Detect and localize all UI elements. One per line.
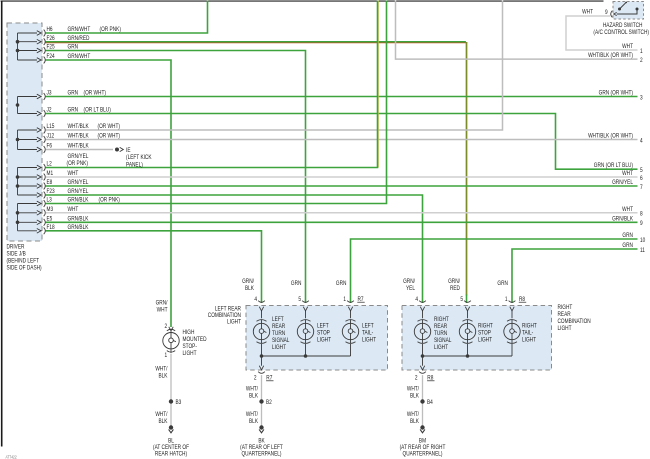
svg-text:GRN/: GRN/ [156, 300, 168, 307]
J/B internal wire bus 3 (L15,J12,F6) [18, 130, 38, 150]
svg-text:5: 5 [640, 168, 643, 175]
ground BK [259, 425, 263, 429]
svg-text:WHT: WHT [68, 207, 79, 214]
J/B pin F26: arrow and connector arc [37, 39, 41, 44]
J/B internal wire bus 5 (L3,M3,E5,F18) [18, 204, 38, 231]
ground BM [420, 425, 424, 429]
box top pin 5: connector arc and arrow [302, 301, 309, 303]
bulb connector arc (bottom) [418, 342, 428, 344]
svg-text:B3: B3 [176, 399, 182, 406]
box bottom pin 2: arrow and connector arc [261, 356, 263, 366]
wire F26 GRN/RED: to right combination light pin 5 [46, 41, 466, 43]
svg-text:J2: J2 [46, 107, 51, 114]
box top pin 1: connector arc and arrow [509, 301, 516, 303]
svg-text:8: 8 [640, 211, 643, 218]
svg-text:(OR PNK): (OR PNK) [99, 27, 121, 34]
left rear combination light box (dashed box) [246, 306, 388, 371]
box top pin 1: connector arc and arrow [347, 301, 354, 303]
wire E5 GRN/BLK: straight to exit 9 [46, 221, 638, 223]
junction dot on bus [16, 103, 20, 107]
wire WHT/BLK down to junction B3 [170, 354, 172, 426]
bulb connector arc (top) [257, 320, 267, 322]
svg-text:(OR WHT): (OR WHT) [98, 124, 121, 131]
svg-text:WHT/: WHT/ [246, 411, 259, 418]
svg-text:F18: F18 [46, 225, 54, 232]
svg-text:GRN/YEL: GRN/YEL [68, 189, 89, 196]
page frame top border [1, 1, 604, 2]
bulb envelope circle [297, 323, 313, 339]
bulb filament [511, 320, 513, 329]
junction dot at J12 [16, 138, 20, 142]
ground BL [169, 425, 173, 429]
wire L2 GRN/YEL (OR PNK): right then up to top edge [46, 1, 378, 168]
svg-text:BLK: BLK [249, 418, 258, 425]
J/B internal wire bus 1 (H6,F26,F25,F24) [18, 33, 38, 60]
svg-text:GRN/BLK: GRN/BLK [612, 216, 633, 223]
svg-text:GRN/BLK: GRN/BLK [68, 225, 89, 232]
svg-text:(OR PNK): (OR PNK) [98, 197, 120, 204]
svg-text:6: 6 [640, 175, 643, 182]
J/B pin L15: arrow and connector arc [37, 128, 41, 133]
J/B pin L2: arrow and connector arc [37, 165, 41, 170]
svg-text:(A/C CONTROL SWITCH): (A/C CONTROL SWITCH) [593, 30, 649, 37]
svg-text:YEL: YEL [406, 285, 415, 292]
svg-text:GRN: GRN [68, 90, 79, 97]
svg-text:GRN/YEL: GRN/YEL [612, 180, 633, 187]
svg-text:COMBINATION: COMBINATION [557, 319, 590, 326]
svg-text:LEFT: LEFT [362, 323, 374, 330]
svg-text:TURN: TURN [272, 331, 285, 338]
svg-text:AT7422: AT7422 [5, 455, 16, 459]
junction dot B2 [259, 399, 263, 403]
svg-text:WHT: WHT [157, 307, 168, 314]
internal ground bus wire [262, 344, 351, 356]
wire F26 GRN/RED: red stripe [46, 42, 468, 44]
svg-text:9: 9 [605, 10, 608, 17]
svg-text:4: 4 [640, 138, 643, 145]
svg-text:WHT/BLK: WHT/BLK [68, 133, 89, 140]
bulb filament [467, 320, 469, 329]
wire WHT hazard loop: pin 9 left, down, to exit 1 [566, 16, 638, 50]
svg-text:WHT/: WHT/ [155, 366, 168, 373]
wire F6 WHT/BLK: short run to IE splice [46, 149, 114, 151]
junction dot at E8 [16, 184, 20, 188]
svg-text:2: 2 [415, 375, 418, 382]
svg-text:J12: J12 [46, 133, 54, 140]
bulb connector arc (top) [418, 320, 428, 322]
box top pin 4: connector arc and arrow [419, 301, 426, 303]
svg-text:LIGHT: LIGHT [522, 337, 537, 344]
svg-text:GRN/YEL: GRN/YEL [68, 180, 89, 187]
svg-text:MOUNTED: MOUNTED [182, 337, 206, 344]
svg-text:B2: B2 [266, 399, 272, 406]
J/B pin E5: arrow and connector arc [37, 220, 41, 225]
J/B pin E8: arrow and connector arc [37, 184, 41, 189]
svg-text:F6: F6 [46, 143, 52, 150]
svg-text:F23: F23 [46, 189, 54, 196]
svg-text:F24: F24 [46, 54, 54, 61]
wire E8 GRN/YEL: straight to exit 7 [46, 185, 638, 187]
wire J12 WHT/BLK (OR WHT): straight to exit 4 [46, 139, 638, 141]
svg-text:PANEL): PANEL) [126, 162, 143, 169]
svg-text:4: 4 [254, 296, 257, 303]
wire F24 GRN/WHT: down to high mounted stop light [46, 60, 172, 327]
svg-text:F25: F25 [46, 44, 54, 51]
svg-text:WHT/: WHT/ [407, 386, 420, 393]
svg-text:SIDE OF DASH): SIDE OF DASH) [6, 265, 41, 272]
junction dot at M1 [16, 175, 20, 179]
bus junction dots [260, 354, 264, 358]
J/B pin F23: arrow and connector arc [37, 193, 41, 198]
svg-text:WHT/: WHT/ [155, 411, 168, 418]
svg-text:1: 1 [640, 48, 643, 55]
svg-text:(LEFT KICK: (LEFT KICK [126, 155, 152, 162]
bulb connector arc (top) [507, 320, 517, 322]
svg-text:RIGHT: RIGHT [522, 323, 537, 330]
svg-text:TAIL-: TAIL- [522, 330, 533, 337]
svg-text:LEFT: LEFT [317, 323, 329, 330]
svg-text:BLK: BLK [410, 418, 419, 425]
bulb envelope circle [414, 323, 430, 339]
bulb envelope circle [253, 323, 269, 339]
wire GRN exit 10: from left combination light pin 1 [351, 239, 638, 303]
J/B pin J3: arrow and connector arc [37, 94, 41, 99]
svg-text:2: 2 [640, 57, 643, 64]
J/B internal wire bus 2 (J3,J2) [18, 97, 38, 114]
bulb envelope circle [342, 323, 358, 339]
wire L3 GRN/BLK (OR PNK): right then up to top edge [46, 1, 387, 204]
internal ground bus wire [423, 344, 513, 356]
box bottom pin 2: arrow and connector arc [422, 356, 424, 366]
J/B pin M3: arrow and connector arc [37, 211, 41, 216]
svg-text:(OR WHT): (OR WHT) [83, 90, 106, 97]
svg-text:WHT: WHT [622, 44, 633, 51]
svg-text:H6: H6 [46, 27, 52, 34]
svg-text:BLK: BLK [249, 393, 258, 400]
svg-text:WHT/: WHT/ [407, 411, 420, 418]
svg-text:BLK: BLK [159, 418, 168, 425]
svg-text:BLK: BLK [159, 373, 168, 380]
svg-text:SIGNAL: SIGNAL [434, 338, 451, 345]
wire L15 WHT/BLK (OR WHT): right then up to top edge [46, 1, 503, 131]
wire WHT/BLK down to junction B4 [422, 375, 424, 426]
junction dot at F25 [16, 49, 20, 53]
svg-text:RIGHT: RIGHT [478, 323, 493, 330]
svg-text:STOP: STOP [478, 330, 491, 337]
svg-text:E8: E8 [46, 180, 52, 187]
svg-text:(OR LT BLU): (OR LT BLU) [83, 107, 110, 114]
svg-text:STOP-: STOP- [182, 344, 197, 351]
svg-text:LIGHT: LIGHT [182, 351, 197, 358]
bulb connector arc (bottom) [257, 342, 267, 344]
svg-text:GRN: GRN [497, 281, 508, 288]
junction dot at M3 [16, 211, 20, 215]
bulb filament [422, 320, 424, 329]
wire M1 WHT: straight to exit 6 [46, 176, 638, 178]
bus junction dots [421, 354, 425, 358]
bulb envelope circle [459, 323, 475, 339]
svg-text:TURN: TURN [434, 331, 447, 338]
svg-text:LIGHT: LIGHT [434, 345, 449, 352]
bulb connector arc (bottom) [463, 342, 473, 344]
svg-text:WHT: WHT [622, 206, 633, 213]
svg-text:IE: IE [126, 147, 131, 154]
J/B pin L3: arrow and connector arc [37, 201, 41, 206]
svg-text:SIDE J/B: SIDE J/B [6, 251, 26, 258]
wire F18 GRN/BLK: down to left combination light pin 4 [46, 231, 262, 303]
svg-text:3: 3 [640, 95, 643, 102]
svg-text:LIGHT: LIGHT [557, 326, 572, 333]
J/B pin F25: arrow and connector arc [37, 48, 41, 53]
svg-text:(BEHIND LEFT: (BEHIND LEFT [6, 258, 39, 265]
svg-text:1: 1 [165, 353, 168, 360]
bulb filament [261, 320, 263, 329]
J/B pin J2: arrow and connector arc [37, 111, 41, 116]
svg-text:GRN (OR WHT): GRN (OR WHT) [599, 90, 634, 97]
junction dot at E5 [16, 221, 20, 225]
svg-text:GRN: GRN [68, 107, 79, 114]
wire H6 GRN/WHT (OR PNK): right then up to top edge [46, 1, 208, 34]
svg-text:7: 7 [640, 184, 643, 191]
svg-text:9: 9 [640, 221, 643, 228]
svg-text:WHT: WHT [68, 171, 79, 178]
bulb connector arc (bottom) [346, 342, 356, 344]
bulb connector arc (bottom) [301, 342, 311, 344]
svg-text:4: 4 [415, 296, 418, 303]
box top pin 4: connector arc and arrow [258, 301, 265, 303]
svg-text:5: 5 [298, 296, 301, 303]
hazard switch internal wire to pin 9 [617, 9, 637, 14]
svg-text:WHT: WHT [622, 171, 633, 178]
J/B pin F24: arrow and connector arc [37, 58, 41, 63]
svg-text:L3: L3 [46, 197, 51, 204]
junction dot at F26 [16, 40, 20, 44]
svg-text:GRN/: GRN/ [242, 278, 254, 285]
svg-text:LIGHT: LIGHT [272, 345, 287, 352]
wire F25 GRN: down to left combination light pin 5 [46, 51, 306, 304]
bulb connector arc (bottom) [507, 342, 517, 344]
svg-text:SIGNAL: SIGNAL [272, 338, 289, 345]
svg-text:J3: J3 [46, 90, 51, 97]
svg-text:M3: M3 [46, 207, 53, 214]
svg-text:HIGH: HIGH [182, 330, 194, 337]
svg-text:WHT/BLK (OR WHT): WHT/BLK (OR WHT) [588, 133, 633, 140]
svg-text:GRN: GRN [68, 44, 79, 51]
svg-text:F26: F26 [46, 35, 54, 42]
svg-text:GRN/BLK: GRN/BLK [68, 197, 89, 204]
svg-text:WHT/BLK (OR WHT): WHT/BLK (OR WHT) [588, 53, 633, 60]
svg-text:10: 10 [640, 237, 645, 244]
svg-text:M1: M1 [46, 171, 53, 178]
svg-text:WHT: WHT [582, 9, 593, 16]
J/B pin M1: arrow and connector arc [37, 175, 41, 180]
svg-text:GRN/WHT: GRN/WHT [68, 27, 91, 34]
svg-text:L15: L15 [46, 124, 54, 131]
wire WHT/BLK down to junction B2 [261, 375, 263, 426]
page frame left border [1, 1, 3, 447]
svg-text:2: 2 [254, 375, 257, 382]
svg-text:LIGHT: LIGHT [362, 337, 377, 344]
svg-text:REAR: REAR [272, 323, 285, 330]
svg-text:REAR HATCH): REAR HATCH) [155, 451, 187, 458]
wire GRN exit 11: from right combination light pin 1 [512, 249, 638, 303]
wire M3 WHT: straight to exit 8 [46, 212, 638, 214]
hazard switch pin 9 arrow and arc [614, 12, 617, 15]
svg-text:GRN/YEL: GRN/YEL [68, 154, 89, 161]
svg-text:BLK: BLK [245, 285, 254, 292]
bulb connector arc (top) [346, 320, 356, 322]
J/B pin H6: arrow and connector arc [37, 31, 41, 36]
wire J2 GRN (OR LT BLU): right, down, to exit 5 [46, 114, 638, 170]
high mounted stop-light bulb [169, 327, 173, 331]
svg-text:L2: L2 [46, 161, 51, 168]
svg-text:1: 1 [343, 296, 346, 303]
svg-text:REAR: REAR [557, 312, 570, 319]
svg-text:B4: B4 [427, 399, 433, 406]
wire L2 GRN/YEL (OR PNK): yellow stripe on riser [377, 1, 379, 168]
bulb filament [305, 320, 307, 329]
svg-text:QUARTERPANEL): QUARTERPANEL) [241, 451, 281, 458]
svg-text:(OR WHT): (OR WHT) [98, 133, 121, 140]
svg-text:LEFT: LEFT [272, 316, 284, 323]
svg-text:GRN/WHT: GRN/WHT [68, 54, 91, 61]
svg-text:GRN: GRN [291, 281, 302, 288]
bulb filament [350, 320, 352, 329]
svg-text:GRN/: GRN/ [403, 278, 415, 285]
svg-text:LIGHT: LIGHT [227, 319, 242, 326]
svg-text:GRN: GRN [336, 281, 347, 288]
svg-text:RED: RED [450, 285, 460, 292]
bulb connector arc (top) [301, 320, 311, 322]
svg-text:TAIL-: TAIL- [362, 330, 373, 337]
svg-text:BLK: BLK [410, 393, 419, 400]
junction block: DRIVER SIDE J/B (dashed box) [7, 23, 42, 241]
right rear combination light box (dashed box) [402, 306, 552, 371]
J/B internal wire bus 4 (L2,M1,E8,F23) [18, 168, 38, 196]
svg-text:STOP: STOP [317, 330, 330, 337]
junction dot B3 [169, 399, 173, 403]
svg-text:GRN/: GRN/ [448, 278, 460, 285]
svg-text:WHT/: WHT/ [246, 386, 259, 393]
box top pin 5: connector arc and arrow [464, 301, 471, 303]
svg-text:DRIVER: DRIVER [6, 244, 24, 251]
svg-text:RIGHT: RIGHT [434, 316, 449, 323]
svg-text:GRN: GRN [622, 233, 633, 240]
svg-text:REAR: REAR [434, 323, 447, 330]
J/B pin F6: arrow and connector arc [37, 147, 41, 152]
hazard switch box (A/C control switch) [613, 2, 644, 20]
svg-text:2: 2 [165, 324, 168, 331]
wire F23 GRN/YEL: down to right combination light pin 4 [46, 195, 423, 303]
bulb envelope circle [504, 323, 520, 339]
hazard switch contacts and lever [618, 8, 621, 11]
svg-text:5: 5 [460, 296, 463, 303]
wire J3 GRN (OR WHT): straight to right edge exit 3 [46, 96, 638, 98]
svg-text:RIGHT: RIGHT [557, 305, 572, 312]
svg-text:QUARTERPANEL): QUARTERPANEL) [402, 451, 442, 458]
bulb connector arc (top) [463, 320, 473, 322]
svg-text:E5: E5 [46, 216, 52, 223]
svg-text:LIGHT: LIGHT [478, 337, 493, 344]
svg-text:HAZARD SWITCH: HAZARD SWITCH [603, 23, 643, 30]
J/B pin J12: arrow and connector arc [37, 137, 41, 142]
splice IE: dot and arrow (LEFT KICK PANEL) [115, 148, 119, 152]
svg-text:GRN/BLK: GRN/BLK [68, 216, 89, 223]
svg-text:1: 1 [505, 296, 508, 303]
svg-text:GRN: GRN [622, 243, 633, 250]
svg-text:GRN/RED: GRN/RED [68, 35, 90, 42]
svg-text:LIGHT: LIGHT [317, 337, 332, 344]
svg-text:WHT/BLK: WHT/BLK [68, 124, 89, 131]
junction dot B4 [420, 399, 424, 403]
wire F26 GRN/RED riser (blended colour) [466, 42, 468, 296]
svg-text:(OR PNK): (OR PNK) [67, 161, 89, 168]
svg-text:GRN (OR LT BLU): GRN (OR LT BLU) [594, 163, 633, 170]
svg-text:WHT/BLK: WHT/BLK [68, 143, 89, 150]
J/B pin F18: arrow and connector arc [37, 229, 41, 234]
wire WHT/BLK exit 2: from top edge down then right [396, 1, 638, 60]
svg-text:11: 11 [640, 247, 645, 254]
